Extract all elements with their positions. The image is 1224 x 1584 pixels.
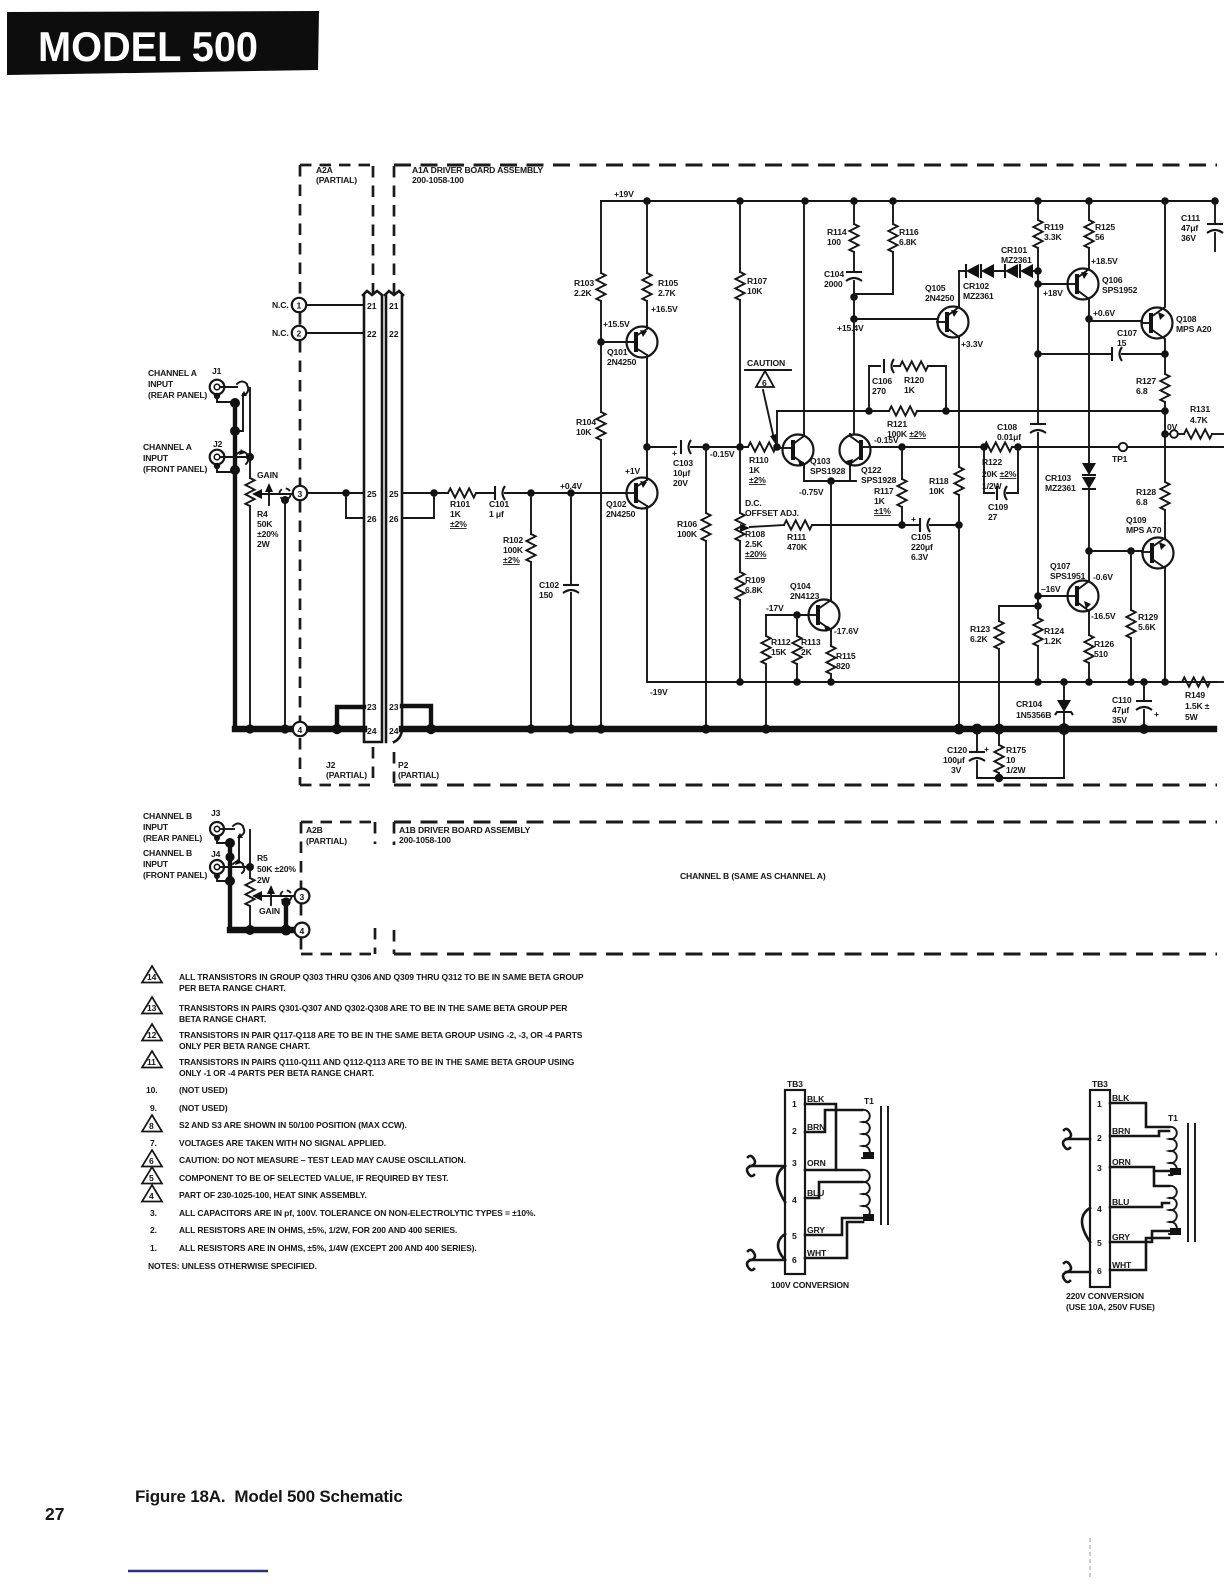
ground dot C102	[566, 724, 575, 733]
note triangle 12	[142, 1024, 162, 1041]
wire tap1 to ORN riser 220V	[1154, 1170, 1169, 1173]
note triangle 4	[142, 1185, 162, 1202]
ground dot C110	[1139, 724, 1149, 734]
svg-text:200-1058-100: 200-1058-100	[399, 835, 451, 845]
svg-text:(PARTIAL): (PARTIAL)	[316, 175, 357, 185]
thick ground bus channel B	[230, 927, 294, 933]
node circle 2	[292, 326, 306, 340]
transistor Q122	[840, 434, 872, 466]
svg-text:R5: R5	[257, 853, 268, 863]
wire ORN 220V	[1110, 1167, 1169, 1186]
capacitor C104	[846, 272, 862, 297]
svg-text:2K: 2K	[801, 647, 813, 657]
node J4 tip / R5 top	[246, 863, 254, 871]
AC lead bottom 220V	[1063, 1262, 1090, 1282]
jack J4	[210, 860, 224, 879]
svg-text:+18.5V: +18.5V	[1091, 256, 1118, 266]
ground dot R112	[761, 724, 770, 733]
svg-text:15K: 15K	[771, 647, 787, 657]
svg-text:INPUT: INPUT	[148, 379, 174, 389]
svg-text:3.3K: 3.3K	[1044, 232, 1062, 242]
svg-text:5.6K: 5.6K	[1138, 622, 1156, 632]
dashed box A1B left edge	[393, 822, 396, 954]
svg-text:PART OF 230-1025-100, HEAT SIN: PART OF 230-1025-100, HEAT SINK ASSEMBLY…	[179, 1190, 367, 1200]
svg-text:TB3: TB3	[787, 1079, 803, 1089]
AC lead top 220V	[1063, 1129, 1090, 1149]
jumper terminals 3-4 100V	[777, 1166, 785, 1202]
svg-text:N.C.: N.C.	[272, 328, 289, 338]
svg-text:±20%: ±20%	[257, 529, 279, 539]
svg-text:R112: R112	[771, 637, 791, 647]
node R122 left	[980, 443, 988, 451]
svg-text:ALL CAPACITORS ARE IN pf, 100V: ALL CAPACITORS ARE IN pf, 100V. TOLERANC…	[179, 1208, 536, 1218]
svg-text:510: 510	[1094, 649, 1108, 659]
node 0V	[1161, 430, 1169, 438]
ground bus main	[235, 726, 1214, 732]
svg-text:C111: C111	[1181, 213, 1200, 223]
node C103 junction	[643, 443, 651, 451]
svg-text:CHANNEL A: CHANNEL A	[148, 368, 197, 378]
node -0.15V input	[702, 443, 710, 451]
svg-text:S2 AND S3 ARE SHOWN IN 50/100: S2 AND S3 ARE SHOWN IN 50/100 POSITION (…	[179, 1120, 407, 1130]
resistor R126	[1084, 635, 1093, 682]
svg-text:6.8K: 6.8K	[899, 237, 917, 247]
capacitor C111	[1207, 201, 1223, 251]
svg-text:R120: R120	[904, 375, 924, 385]
wire BLU 100V	[805, 1182, 862, 1198]
svg-text:Q107: Q107	[1050, 561, 1071, 571]
svg-text:820: 820	[836, 661, 850, 671]
wire C108 to Q107 base	[1037, 433, 1039, 606]
wire GRY 220V	[1110, 1231, 1169, 1242]
svg-text:+: +	[911, 514, 916, 524]
svg-text:2.2K: 2.2K	[574, 288, 592, 298]
node R126 on -19V	[1085, 678, 1093, 686]
svg-text:35V: 35V	[1112, 715, 1127, 725]
svg-text:2000: 2000	[824, 279, 843, 289]
node C110 on -19V	[1140, 678, 1148, 686]
svg-text:R125: R125	[1095, 222, 1115, 232]
node CR103 bottom	[1085, 547, 1093, 555]
svg-text:2: 2	[792, 1126, 797, 1136]
svg-text:1 μf: 1 μf	[489, 509, 504, 519]
svg-text:R103: R103	[574, 278, 594, 288]
terminal numbers 100V	[792, 1099, 797, 1265]
svg-text:150: 150	[539, 590, 553, 600]
resistor R115	[826, 631, 835, 682]
svg-text:R102: R102	[503, 535, 523, 545]
svg-text:0.01μf: 0.01μf	[997, 432, 1021, 442]
svg-text:-0.6V: -0.6V	[1093, 572, 1113, 582]
node R117 top	[898, 443, 906, 451]
resistor R149	[1165, 677, 1224, 686]
svg-text:100μf: 100μf	[943, 755, 965, 765]
note triangle 13	[142, 997, 162, 1014]
svg-text:BLU: BLU	[1112, 1197, 1129, 1207]
svg-text:A1A DRIVER BOARD ASSEMBLY: A1A DRIVER BOARD ASSEMBLY	[412, 165, 543, 175]
svg-text:1K: 1K	[874, 496, 886, 506]
resistor R109	[735, 572, 744, 600]
svg-text:(FRONT PANEL): (FRONT PANEL)	[143, 464, 208, 474]
wire Q122 emitter join	[849, 466, 851, 481]
wire WHT 100V	[805, 1222, 863, 1258]
switch contact J2	[237, 449, 248, 464]
svg-text:C105: C105	[911, 532, 931, 542]
svg-text:10K: 10K	[747, 286, 763, 296]
dashed P2 box left edge stub	[393, 752, 396, 785]
node C102 top	[567, 489, 575, 497]
svg-text:R101: R101	[450, 499, 470, 509]
transistor Q105	[937, 306, 969, 338]
svg-text:J4: J4	[211, 849, 221, 859]
transformer T1 220V winding 1	[1169, 1127, 1177, 1175]
resistor R107	[735, 272, 744, 300]
wire Q106 base	[1038, 283, 1068, 285]
title block MODEL 500	[7, 11, 319, 75]
resistor R120	[900, 361, 946, 411]
svg-text:ONLY PER BETA RANGE CHART.: ONLY PER BETA RANGE CHART.	[179, 1041, 310, 1051]
svg-text:R116: R116	[899, 227, 919, 237]
dashed box A1A left edge	[393, 166, 396, 293]
capacitor C109	[984, 447, 1018, 500]
svg-text:3: 3	[300, 892, 305, 902]
svg-text:1.5K ±: 1.5K ±	[1185, 701, 1210, 711]
svg-text:27: 27	[45, 1504, 64, 1524]
ground dot R104	[596, 724, 605, 733]
svg-text:INPUT: INPUT	[143, 453, 169, 463]
wire +19V to R107	[739, 201, 741, 272]
svg-text:9.: 9.	[150, 1103, 157, 1113]
node R124 on -19V	[1034, 678, 1042, 686]
svg-text:R131: R131	[1190, 404, 1210, 414]
wire branch to R123	[999, 606, 1038, 621]
mechanical link dashed circle R5	[280, 890, 291, 901]
wire C120 R175 bottom loop	[977, 729, 1064, 778]
wire BLK 220V	[1110, 1103, 1169, 1127]
svg-text:2: 2	[297, 329, 302, 339]
jumper terminals 4-5 220V	[1082, 1208, 1090, 1242]
svg-text:2.7K: 2.7K	[658, 288, 676, 298]
svg-text:4: 4	[149, 1191, 154, 1201]
svg-text:Q108: Q108	[1176, 314, 1197, 324]
svg-text:TRANSISTORS IN PAIRS Q301-Q307: TRANSISTORS IN PAIRS Q301-Q307 AND Q302-…	[179, 1003, 567, 1013]
GAIN adjust arrow B	[267, 885, 275, 905]
svg-text:WHT: WHT	[807, 1248, 827, 1258]
wire 0V down to R128	[1164, 434, 1166, 482]
svg-text:+0.4V: +0.4V	[560, 481, 582, 491]
svg-text:Q103: Q103	[810, 456, 831, 466]
node Q109 emitter on -19V	[1161, 678, 1169, 686]
svg-text:2W: 2W	[257, 539, 271, 549]
svg-text:2.5K: 2.5K	[745, 539, 763, 549]
resistor R112	[761, 615, 770, 729]
potentiometer R4	[245, 457, 254, 729]
svg-text:470K: 470K	[787, 542, 808, 552]
svg-text:50K ±20%: 50K ±20%	[257, 864, 296, 874]
svg-text:2N4250: 2N4250	[607, 357, 637, 367]
svg-text:10μf: 10μf	[673, 468, 690, 478]
junction dot J4 sleeve	[225, 876, 235, 886]
wire J3 sleeve	[217, 840, 228, 843]
note triangle 5	[142, 1167, 162, 1184]
svg-text:R113: R113	[801, 637, 821, 647]
node R107 junction	[736, 443, 744, 451]
node R129 on -19V	[1127, 678, 1135, 686]
svg-text:N.C.: N.C.	[272, 300, 289, 310]
thick ground riser channel B	[228, 841, 232, 930]
switch contact J3	[233, 824, 244, 839]
dashed box A2B left edge	[300, 822, 303, 954]
svg-text:T1: T1	[1168, 1113, 1178, 1123]
svg-text:220V CONVERSION: 220V CONVERSION	[1066, 1291, 1144, 1301]
resistor R124	[1033, 606, 1042, 682]
svg-text:C104: C104	[824, 269, 844, 279]
wire J1 sleeve to ground	[217, 398, 231, 402]
node CR104 on -19V	[1060, 678, 1068, 686]
terminal strip TB3 100V	[785, 1090, 805, 1274]
svg-text:4: 4	[300, 926, 305, 936]
wire Q122 collector riser	[853, 319, 855, 434]
resistor R111	[784, 520, 903, 529]
transistor Q107	[1068, 551, 1099, 635]
svg-text:21: 21	[367, 301, 377, 311]
svg-text:1.2K: 1.2K	[1044, 636, 1062, 646]
wire J1 switch riser	[249, 388, 251, 457]
svg-text:1: 1	[1097, 1099, 1102, 1109]
transistor Q103	[781, 433, 814, 467]
svg-text:+1V: +1V	[625, 466, 640, 476]
resistor R175	[994, 729, 1003, 778]
svg-text:CHANNEL B (SAME AS CHANNEL A): CHANNEL B (SAME AS CHANNEL A)	[680, 871, 826, 881]
wire Q102 collector to -19V	[647, 506, 1216, 682]
svg-text:5: 5	[149, 1173, 154, 1183]
svg-text:SPS1951: SPS1951	[1050, 571, 1086, 581]
ground dot R106	[701, 724, 710, 733]
jack J2	[210, 450, 225, 469]
wire C104 node to +15.4V node	[853, 297, 855, 319]
svg-text:R107: R107	[747, 276, 767, 286]
wire TP1 line to edge	[1012, 446, 1224, 448]
test point 0V	[1165, 430, 1178, 438]
svg-text:MODEL 500: MODEL 500	[38, 23, 258, 70]
svg-text:SPS1928: SPS1928	[861, 475, 897, 485]
svg-text:7.: 7.	[150, 1138, 157, 1148]
node circle 3 channel B	[295, 889, 310, 904]
junction dot J2 sleeve	[230, 465, 240, 475]
svg-text:Q102: Q102	[606, 499, 627, 509]
note triangle 14	[142, 966, 162, 983]
node Q107 base	[1034, 592, 1042, 600]
svg-text:-16.5V: -16.5V	[1091, 611, 1116, 621]
dashed box A1A top edge	[394, 164, 1217, 167]
svg-text:+16.5V: +16.5V	[651, 304, 678, 314]
transistor Q101	[601, 301, 658, 358]
svg-text:INPUT: INPUT	[143, 822, 169, 832]
svg-text:1.: 1.	[150, 1243, 157, 1253]
wire R128 to Q109	[1164, 510, 1166, 538]
svg-text:J1: J1	[212, 366, 222, 376]
wire R103 to node	[600, 301, 602, 342]
potentiometer R5	[245, 867, 254, 930]
R4 wiper arrow	[252, 489, 293, 499]
svg-text:CR101: CR101	[1001, 245, 1027, 255]
svg-text:A2A: A2A	[316, 165, 333, 175]
resistor R116	[854, 201, 898, 294]
svg-text:27: 27	[988, 512, 998, 522]
svg-text:270: 270	[872, 386, 886, 396]
node Q106 base	[1034, 280, 1042, 288]
svg-text:4: 4	[298, 725, 303, 735]
svg-text:+15.5V: +15.5V	[603, 319, 630, 329]
svg-text:R129: R129	[1138, 612, 1158, 622]
wire Q103 collector to +19V	[803, 201, 805, 433]
resistor R102	[526, 493, 535, 729]
ground dot R5 case	[281, 925, 292, 936]
svg-text:BRN: BRN	[1112, 1126, 1130, 1136]
svg-text:CHANNEL A: CHANNEL A	[143, 442, 192, 452]
node J2 tip / R4 top	[246, 453, 254, 461]
transformer T1 100V winding 2	[862, 1170, 870, 1218]
resistor R127	[1160, 354, 1169, 411]
node C105 right on R118 line	[955, 521, 963, 529]
transistor Q108	[1142, 201, 1173, 354]
svg-text:+: +	[1154, 709, 1159, 719]
svg-text:5: 5	[1097, 1238, 1102, 1248]
AC lead lower 100V	[747, 1250, 785, 1270]
dashed box A2B bottom edge	[301, 953, 375, 956]
resistor R110	[748, 442, 776, 451]
diode CR103 zener pair	[1082, 463, 1096, 551]
svg-text:6.8: 6.8	[1136, 386, 1148, 396]
svg-text:D.C.: D.C.	[745, 498, 762, 508]
svg-text:1K: 1K	[904, 385, 916, 395]
wire Q105 collector to diode row	[958, 271, 960, 306]
svg-text:2N4250: 2N4250	[925, 293, 955, 303]
wire BLU 220V	[1110, 1203, 1169, 1207]
svg-text:CR103: CR103	[1045, 473, 1071, 483]
ground dot R4 case	[280, 724, 289, 733]
diode CR102	[959, 264, 994, 278]
capacitor C102	[563, 493, 579, 729]
ground dot R118	[954, 724, 965, 735]
wire J2 tip	[220, 456, 248, 458]
svg-text:56: 56	[1095, 232, 1105, 242]
wire Q107 base	[1038, 595, 1068, 597]
svg-text:GAIN: GAIN	[259, 906, 280, 916]
node C104 bottom	[850, 293, 858, 301]
svg-text:ORN: ORN	[1112, 1157, 1131, 1167]
wire N.C.2 to pin22	[306, 332, 364, 334]
tap mark winding2 100V	[863, 1214, 874, 1221]
note triangle 8	[142, 1115, 162, 1132]
svg-text:CR104: CR104	[1016, 699, 1042, 709]
test point TP1	[1119, 443, 1127, 451]
svg-text:11: 11	[147, 1057, 156, 1067]
svg-text:VOLTAGES ARE TAKEN WITH NO SIG: VOLTAGES ARE TAKEN WITH NO SIGNAL APPLIE…	[179, 1138, 386, 1148]
stray dashed mark bottom right	[1089, 1538, 1091, 1578]
dashed box A1B top edge	[394, 821, 1217, 824]
pin23 strap right	[402, 706, 436, 734]
svg-text:CAUTION: CAUTION	[747, 358, 785, 368]
wire ORN row to winding2 top 100V	[805, 1169, 862, 1172]
svg-text:R124: R124	[1044, 626, 1064, 636]
node Q108 emitter C107	[1161, 350, 1169, 358]
svg-text:C109: C109	[988, 502, 1008, 512]
svg-text:Q101: Q101	[607, 347, 628, 357]
svg-text:(USE 10A, 250V FUSE): (USE 10A, 250V FUSE)	[1066, 1302, 1155, 1312]
node R123 branch	[1034, 602, 1042, 610]
dashed box A2A partial top edge	[300, 164, 372, 167]
svg-text:5: 5	[792, 1231, 797, 1241]
diode CR101	[994, 264, 1038, 278]
svg-text:MPS A20: MPS A20	[1176, 324, 1212, 334]
caution arrow to base node	[763, 390, 776, 445]
wire J2 sleeve to ground	[217, 468, 231, 472]
svg-text:J2: J2	[326, 760, 336, 770]
note triangle 6	[142, 1150, 162, 1167]
svg-text:R175: R175	[1006, 745, 1026, 755]
svg-text:6: 6	[149, 1156, 154, 1166]
wire signal node to R110	[706, 446, 748, 448]
svg-text:6: 6	[1097, 1266, 1102, 1276]
jack J1	[210, 380, 225, 399]
svg-text:TP1: TP1	[1112, 454, 1128, 464]
resistor R123	[994, 621, 1003, 729]
potentiometer R108 DC offset	[735, 447, 784, 541]
svg-text:1N5356B: 1N5356B	[1016, 710, 1051, 720]
svg-text:C110: C110	[1112, 695, 1132, 705]
ground dot CR104	[1058, 723, 1070, 735]
dashed box A2B right edge	[374, 822, 377, 954]
wire N.C.1 to pin21	[306, 304, 364, 306]
svg-text:±2%: ±2%	[450, 519, 467, 529]
svg-text:10: 10	[1006, 755, 1016, 765]
svg-text:R106: R106	[677, 519, 697, 529]
ground dot R4 bottom	[245, 724, 254, 733]
wire color labels 100V	[807, 1094, 827, 1258]
svg-text:Q109: Q109	[1126, 515, 1147, 525]
svg-text:6.8K: 6.8K	[745, 585, 763, 595]
node R120 right on feedback line	[942, 407, 950, 415]
svg-text:C106: C106	[872, 376, 892, 386]
ground dot C120	[972, 724, 983, 735]
node R115 on -19V	[827, 678, 835, 686]
svg-text:INPUT: INPUT	[143, 859, 169, 869]
resistor R125	[1084, 201, 1093, 248]
wire node to R104	[600, 342, 602, 412]
junction dot J1 sleeve	[230, 398, 240, 408]
svg-text:22: 22	[389, 329, 399, 339]
junction dot mid riser	[230, 426, 240, 436]
svg-text:-0.15V: -0.15V	[874, 435, 899, 445]
svg-text:6: 6	[762, 378, 767, 388]
feedback line to R127 node	[777, 410, 1165, 412]
svg-text:CR102: CR102	[963, 281, 989, 291]
wire Q101 collector down	[646, 355, 648, 447]
+19V rail	[601, 200, 1215, 202]
ground dot R5 bottom	[245, 925, 255, 935]
wire BRN 220V	[1110, 1131, 1169, 1136]
wire R109 to -19V	[739, 600, 741, 682]
wire +15.4V to Q105 base	[854, 318, 937, 320]
svg-text:CHANNEL B: CHANNEL B	[143, 848, 192, 858]
svg-text:CAUTION: DO NOT MEASURE – TES: CAUTION: DO NOT MEASURE – TEST LEAD MAY …	[179, 1155, 466, 1165]
node Q103 base	[773, 443, 781, 451]
thick ground riser channel A	[233, 401, 237, 729]
junction dot J3 sleeve	[225, 838, 235, 848]
svg-text:20V: 20V	[673, 478, 688, 488]
svg-text:R128: R128	[1136, 487, 1156, 497]
